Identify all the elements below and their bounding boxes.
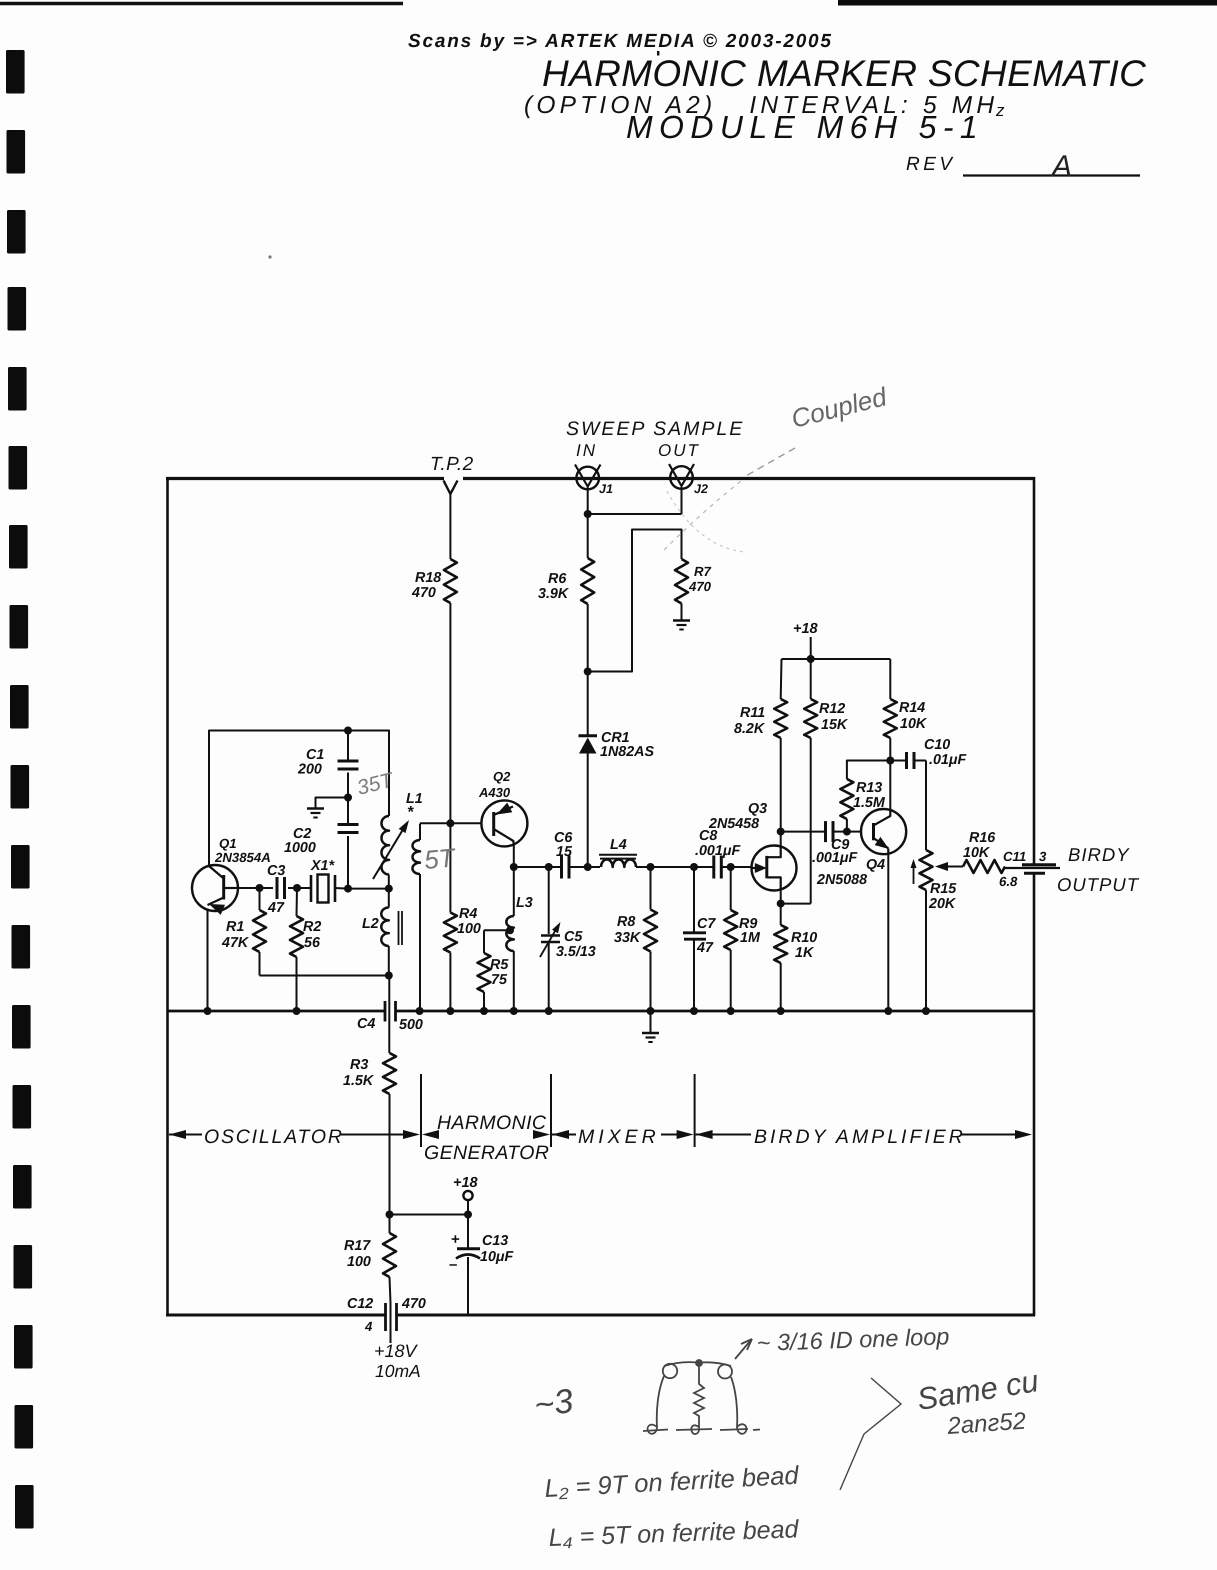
svg-text:470: 470 xyxy=(401,1296,426,1312)
svg-text:500: 500 xyxy=(399,1017,423,1033)
junction C13 top xyxy=(464,1211,472,1219)
capacitor C9 xyxy=(824,821,827,842)
svg-text:L2: L2 xyxy=(362,916,379,932)
pencil leader line to J2 xyxy=(744,448,795,477)
svg-text:6.8: 6.8 xyxy=(999,874,1018,889)
junction Q4 emitter on bus xyxy=(884,1007,892,1015)
svg-text:L4: L4 xyxy=(610,837,627,853)
svg-text:10K: 10K xyxy=(963,845,991,861)
junction Q1 emitter on bus xyxy=(204,1007,212,1015)
svg-text:3.5/13: 3.5/13 xyxy=(556,944,596,960)
svg-text:~ 3/16 ID one loop: ~ 3/16 ID one loop xyxy=(756,1323,950,1356)
svg-text:Coupled: Coupled xyxy=(788,381,891,434)
wire J2 stub xyxy=(681,487,683,514)
wire R3 to R17 xyxy=(389,1094,391,1233)
resistor R14 xyxy=(884,699,897,738)
svg-text:75: 75 xyxy=(491,972,508,988)
connector J1 xyxy=(576,467,599,490)
junction under J1 xyxy=(584,510,592,518)
junction L1 secondary on bus xyxy=(416,1007,424,1015)
inductor L1 (variable, 35T) xyxy=(382,816,390,875)
wire C8 to Q3 gate xyxy=(731,866,752,868)
svg-text:BIRDY: BIRDY xyxy=(1068,844,1130,865)
wire R7 to ground xyxy=(681,604,683,621)
junction R5 on L3 xyxy=(506,926,514,934)
resistor R16 xyxy=(963,860,1005,873)
svg-text:REV: REV xyxy=(906,154,956,175)
inductor L3 xyxy=(513,867,515,916)
svg-text:8.2K: 8.2K xyxy=(734,721,766,737)
junction +18 feed xyxy=(386,1211,394,1219)
junction R18/base wire xyxy=(446,819,454,827)
resistor R11 xyxy=(774,699,787,738)
page top-left edge line xyxy=(0,2,403,5)
resistor R6 xyxy=(581,558,594,604)
junction C1 top xyxy=(344,727,352,735)
REV underline xyxy=(963,174,1140,176)
section divider arrows and ticks xyxy=(169,1130,186,1139)
resistor R9 xyxy=(724,910,737,950)
test point T.P.2 symbol xyxy=(444,481,458,495)
page top-right black bar xyxy=(838,0,1217,6)
R15 wiper arrow xyxy=(946,866,963,868)
wire CR1 to mixer bus xyxy=(587,754,589,868)
svg-text:C11: C11 xyxy=(1003,849,1026,864)
wire R17 to C12 xyxy=(390,1277,391,1303)
enclosure box right border (below C11) xyxy=(1033,874,1036,1317)
ground (oscillator) xyxy=(307,807,324,809)
wire C12 through to +18V input xyxy=(390,1303,392,1343)
wire Q3 drain xyxy=(780,832,782,846)
inductor L2 xyxy=(381,907,389,946)
wire R1 bottom to L2 bottom xyxy=(260,975,389,977)
capacitor C8 xyxy=(712,856,715,879)
resistor R2 xyxy=(290,916,303,957)
enclosure box bottom border (left of C12) xyxy=(166,1314,385,1317)
wire Q4 collector xyxy=(889,761,891,810)
wire J1 stub xyxy=(587,487,589,514)
svg-text:C5: C5 xyxy=(564,929,583,945)
svg-text:1.5K: 1.5K xyxy=(343,1073,375,1089)
svg-text:X1*: X1* xyxy=(310,858,335,874)
svg-text:35T: 35T xyxy=(355,768,398,800)
wire common bus (right of C4) xyxy=(396,1010,1035,1013)
wire +18 rail xyxy=(782,658,891,660)
svg-text:HARMONIC MARKER SCHEMATIC: HARMONIC MARKER SCHEMATIC xyxy=(542,53,1146,94)
L2 core bars xyxy=(398,911,400,945)
wire Q3 drain to C9 xyxy=(781,831,824,833)
svg-text:L3: L3 xyxy=(516,895,533,911)
svg-text:+18V: +18V xyxy=(374,1341,419,1361)
svg-text:.001μF: .001μF xyxy=(812,850,858,866)
resistor R7 xyxy=(675,559,688,604)
resistor R17 xyxy=(383,1233,396,1277)
junction CR1 on bus xyxy=(584,863,592,871)
wire X1 to L1/L2 junction xyxy=(348,888,389,890)
svg-text:R11: R11 xyxy=(740,705,765,721)
svg-text:1N82AS: 1N82AS xyxy=(600,744,655,760)
mark under MEDIA xyxy=(657,51,659,56)
capacitor C5 (variable) xyxy=(548,867,550,934)
svg-text:MIXER: MIXER xyxy=(578,1126,660,1148)
svg-text:4: 4 xyxy=(364,1319,373,1334)
svg-text:1K: 1K xyxy=(795,945,815,961)
svg-text:R4: R4 xyxy=(459,906,477,922)
L4 core bars xyxy=(599,854,637,856)
capacitor C7 xyxy=(693,867,695,932)
wire bus ground stub xyxy=(650,1011,652,1032)
junction R10 on bus xyxy=(777,1007,785,1015)
svg-text:10mA: 10mA xyxy=(375,1361,421,1381)
R15 adjust arrow xyxy=(913,862,915,884)
svg-text:L₂ = 9T on ferrite bead: L₂ = 9T on ferrite bead xyxy=(544,1462,800,1503)
inductor L4 xyxy=(601,859,636,867)
svg-text:2N5088: 2N5088 xyxy=(816,872,867,888)
svg-text:470: 470 xyxy=(411,585,436,601)
junction R6/CR1 node xyxy=(584,668,592,676)
svg-text:A430: A430 xyxy=(478,785,511,800)
svg-text:R6: R6 xyxy=(548,571,567,587)
wire +18 feed horizontal xyxy=(390,1214,469,1216)
svg-text:A: A xyxy=(1050,150,1072,183)
svg-text:100: 100 xyxy=(457,921,481,937)
resistor R4 xyxy=(444,913,457,953)
enclosure box left border xyxy=(166,477,169,1316)
resistor R12 xyxy=(804,699,817,738)
svg-text:R16: R16 xyxy=(969,830,996,846)
svg-text:R12: R12 xyxy=(819,701,845,717)
junction R15 on bus xyxy=(922,1007,930,1015)
svg-text:R10: R10 xyxy=(791,930,817,946)
svg-text:R2: R2 xyxy=(303,919,321,935)
svg-text:R18: R18 xyxy=(415,570,441,586)
binder hole punches (left edge) xyxy=(6,50,34,1529)
dust speck xyxy=(268,255,271,258)
junction R9 tap xyxy=(727,863,735,871)
svg-text:Q1: Q1 xyxy=(219,836,237,851)
junction C7 tap xyxy=(690,863,698,871)
svg-text:R3: R3 xyxy=(350,1057,368,1073)
resistor R3 xyxy=(383,1053,396,1094)
svg-text:C4: C4 xyxy=(357,1016,375,1032)
capacitor C13 (electrolytic) xyxy=(467,1215,469,1248)
wire oscillator feedback loop top xyxy=(209,731,389,866)
transistor Q1 circle xyxy=(192,865,238,911)
wire Q1 base to C3 xyxy=(238,887,260,889)
svg-text:R15: R15 xyxy=(930,881,957,897)
junction C1/C2/ground xyxy=(344,794,352,802)
svg-text:J1: J1 xyxy=(599,482,613,496)
svg-text:47K: 47K xyxy=(221,935,250,951)
wire Q4 emitter to bus xyxy=(887,854,889,1011)
svg-text:~3: ~3 xyxy=(532,1382,576,1425)
hand bracket xyxy=(840,1378,901,1490)
transistor Q2 internals xyxy=(492,812,495,836)
svg-text:OUTPUT: OUTPUT xyxy=(1057,874,1140,895)
svg-text:J2: J2 xyxy=(694,482,708,496)
junction R2 on bus xyxy=(293,1007,301,1015)
resistor R1 xyxy=(253,910,266,952)
svg-text:Q3: Q3 xyxy=(748,801,767,817)
svg-text:.01μF: .01μF xyxy=(929,752,967,768)
svg-text:Q2: Q2 xyxy=(493,769,511,784)
connector J2 xyxy=(670,466,693,489)
junction R5 on bus xyxy=(480,1007,488,1015)
transistor Q3 (JFET) circle xyxy=(752,846,797,891)
diode CR1 wire top xyxy=(587,672,589,736)
junction C7 on bus xyxy=(690,1007,698,1015)
capacitor C10 xyxy=(890,760,905,762)
svg-text:47: 47 xyxy=(267,900,285,916)
capacitor C2 xyxy=(347,798,349,826)
svg-text:R13: R13 xyxy=(856,780,882,796)
svg-text:10K: 10K xyxy=(900,716,928,732)
transistor Q4 circle xyxy=(861,809,906,854)
wire +18 stub xyxy=(810,637,812,659)
hand sketch: one-loop coil drawing xyxy=(643,1339,760,1434)
svg-text:.001μF: .001μF xyxy=(695,843,741,859)
wire L1 bottom xyxy=(388,875,390,908)
wire to oscillator ground xyxy=(316,798,349,809)
svg-text:C13: C13 xyxy=(482,1233,508,1249)
transistor Q4 internals xyxy=(847,831,861,833)
svg-text:C7: C7 xyxy=(697,916,716,932)
wire Q2 collector to bus xyxy=(513,847,515,868)
junction L1/L2/X1 xyxy=(385,885,393,893)
svg-text:56: 56 xyxy=(304,935,321,951)
junction L4/R8 xyxy=(647,863,655,871)
svg-text:15K: 15K xyxy=(821,717,849,733)
svg-text:–: – xyxy=(449,1256,457,1273)
svg-text:33K: 33K xyxy=(614,930,642,946)
wire L2 to junction xyxy=(388,946,390,976)
enclosure box top border (right of T.P.2) xyxy=(463,477,1035,480)
enclosure box right border (above C11) xyxy=(1033,477,1036,864)
svg-text:2N5458: 2N5458 xyxy=(708,816,759,832)
svg-text:OSCILLATOR: OSCILLATOR xyxy=(204,1126,344,1148)
transistor Q2 circle xyxy=(481,800,527,846)
svg-text:+18: +18 xyxy=(453,1175,479,1191)
svg-text:20K: 20K xyxy=(928,896,957,912)
junction C5 tap xyxy=(545,863,553,871)
wire common bus (left of C4) xyxy=(168,1010,386,1013)
potentiometer R15 xyxy=(920,850,933,890)
svg-text:100: 100 xyxy=(347,1254,371,1270)
inductor L1 secondary (5T) xyxy=(419,824,421,841)
junction R8/ground on bus xyxy=(647,1007,655,1015)
transistor Q1 internals xyxy=(222,875,225,900)
junction C2 bottom xyxy=(344,885,352,893)
svg-text:GENERATOR: GENERATOR xyxy=(424,1142,549,1164)
svg-text:z: z xyxy=(995,101,1005,120)
svg-text:Q4: Q4 xyxy=(866,857,885,873)
crystal X1 xyxy=(297,887,311,889)
svg-text:+: + xyxy=(451,1231,460,1248)
wire Q3 source xyxy=(780,890,782,903)
svg-text:1000: 1000 xyxy=(284,840,316,856)
resistor R5 xyxy=(478,953,491,992)
svg-text:R8: R8 xyxy=(617,914,635,930)
svg-text:C12: C12 xyxy=(347,1296,373,1312)
wire R12 to Q3 source xyxy=(781,903,811,905)
svg-text:200: 200 xyxy=(297,762,322,778)
svg-text:1M: 1M xyxy=(740,930,761,946)
wire R5 tap to L3 xyxy=(484,929,510,931)
svg-text:Scans by => ARTEK MEDIA © 200: Scans by => ARTEK MEDIA © 2003-2005 xyxy=(408,31,833,52)
svg-text:R5: R5 xyxy=(490,957,509,973)
wire C10 to R15 xyxy=(925,761,927,851)
svg-text:BIRDY AMPLIFIER: BIRDY AMPLIFIER xyxy=(754,1126,966,1148)
ground below R7 xyxy=(673,619,690,621)
diode CR1 xyxy=(579,734,598,737)
svg-text:SWEEP SAMPLE: SWEEP SAMPLE xyxy=(566,418,744,440)
capacitor C12 plates xyxy=(384,1303,387,1331)
L1 adjust arrow xyxy=(373,825,406,880)
junction R4 on bus xyxy=(446,1007,454,1015)
svg-text:2N3854A: 2N3854A xyxy=(214,850,271,865)
svg-text:MODULE M6H 5-1: MODULE M6H 5-1 xyxy=(626,109,984,145)
svg-text:47: 47 xyxy=(696,940,714,956)
wire L1 secondary to Q2 base xyxy=(420,822,482,824)
svg-text:C10: C10 xyxy=(924,737,950,753)
svg-text:C3: C3 xyxy=(267,863,285,879)
capacitor C11 (feedthrough) xyxy=(1022,863,1056,866)
wire R6 bottom jog to R7 xyxy=(588,530,682,672)
junction +18 rail xyxy=(807,655,815,663)
junction Q1 base node xyxy=(256,884,264,892)
wire mixer bus xyxy=(514,866,561,868)
svg-text:T.P.2: T.P.2 xyxy=(430,454,474,475)
svg-text:R1: R1 xyxy=(226,919,244,935)
svg-text:*: * xyxy=(407,804,414,821)
svg-text:L₄ = 5T on ferrite bead: L₄ = 5T on ferrite bead xyxy=(548,1515,800,1552)
svg-text:R7: R7 xyxy=(694,564,712,579)
junction Q3 drain node xyxy=(777,828,785,836)
resistor R18 xyxy=(444,559,457,603)
resistor R10 xyxy=(774,925,787,963)
capacitor C1 xyxy=(347,731,349,763)
svg-text:3.9K: 3.9K xyxy=(538,586,570,602)
junction R9 on bus xyxy=(727,1007,735,1015)
wire L2 node down through C4 to R3 xyxy=(388,976,390,1054)
wire R18 to base junction xyxy=(449,603,451,823)
enclosure box top border (left of T.P.2) xyxy=(166,477,444,480)
svg-text:10μF: 10μF xyxy=(480,1249,515,1265)
svg-text:R14: R14 xyxy=(899,700,925,716)
resistor R13 xyxy=(840,779,853,819)
wire R6 leads xyxy=(587,514,589,558)
junction Q2 collector on bus xyxy=(510,863,518,871)
svg-text:470: 470 xyxy=(688,579,712,594)
junction C9/R13/Q4 base xyxy=(843,828,851,836)
junction L2 bottom xyxy=(385,972,393,980)
svg-text:HARMONIC: HARMONIC xyxy=(437,1112,547,1134)
junction Q3 source node xyxy=(777,900,785,908)
svg-text:R17: R17 xyxy=(344,1238,371,1254)
wire J1 to J2 (loop-through) xyxy=(588,513,682,515)
junction C5 on bus xyxy=(545,1007,553,1015)
svg-text:3: 3 xyxy=(1039,849,1047,864)
wire T.P.2 to R18 xyxy=(449,494,451,559)
svg-text:5T: 5T xyxy=(423,842,458,875)
capacitor C6 xyxy=(560,856,563,879)
svg-text:15: 15 xyxy=(556,844,573,860)
enclosure box bottom border (right of C12) xyxy=(397,1314,1035,1317)
resistor R8 xyxy=(644,910,657,952)
svg-text:IN: IN xyxy=(576,441,597,460)
wire R16 to C11 feedthrough xyxy=(1005,867,1060,869)
capacitor C4 plates xyxy=(384,1001,387,1022)
ground (bus) xyxy=(642,1032,659,1034)
svg-text:+18: +18 xyxy=(793,621,819,637)
svg-text:OUT: OUT xyxy=(658,441,700,460)
svg-text:2anг52: 2anг52 xyxy=(946,1408,1027,1440)
transistor Q3 internals xyxy=(752,867,758,869)
junction L3 on bus xyxy=(510,1007,518,1015)
junction C3/X1/R2 node xyxy=(293,884,301,892)
capacitor C3 xyxy=(260,887,274,889)
junction R13/R14/C10/Q4 collector xyxy=(886,757,894,765)
